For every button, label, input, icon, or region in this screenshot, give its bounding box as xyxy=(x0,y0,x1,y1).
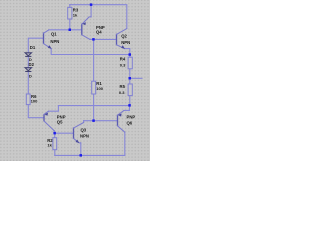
svg-text:Q6: Q6 xyxy=(127,121,133,126)
svg-text:1k: 1k xyxy=(47,143,52,148)
svg-text:0.3: 0.3 xyxy=(119,90,125,95)
svg-text:PNP: PNP xyxy=(127,115,136,120)
svg-text:Q4: Q4 xyxy=(96,30,102,35)
svg-text:NPN: NPN xyxy=(121,40,130,45)
svg-text:NPN: NPN xyxy=(80,134,89,139)
svg-text:D1: D1 xyxy=(30,45,36,50)
svg-text:D: D xyxy=(29,73,32,78)
svg-text:Q2: Q2 xyxy=(121,34,127,39)
svg-text:0.3: 0.3 xyxy=(120,62,126,67)
svg-text:R5: R5 xyxy=(120,84,126,89)
svg-text:Q3: Q3 xyxy=(81,127,87,132)
svg-text:NPN: NPN xyxy=(50,39,59,44)
svg-text:1k: 1k xyxy=(73,12,78,17)
svg-text:100: 100 xyxy=(31,98,39,103)
svg-text:D2: D2 xyxy=(29,62,35,67)
svg-text:Q1: Q1 xyxy=(51,31,57,36)
svg-text:100: 100 xyxy=(96,86,104,91)
svg-text:R4: R4 xyxy=(120,56,126,61)
svg-text:Q5: Q5 xyxy=(57,120,63,125)
